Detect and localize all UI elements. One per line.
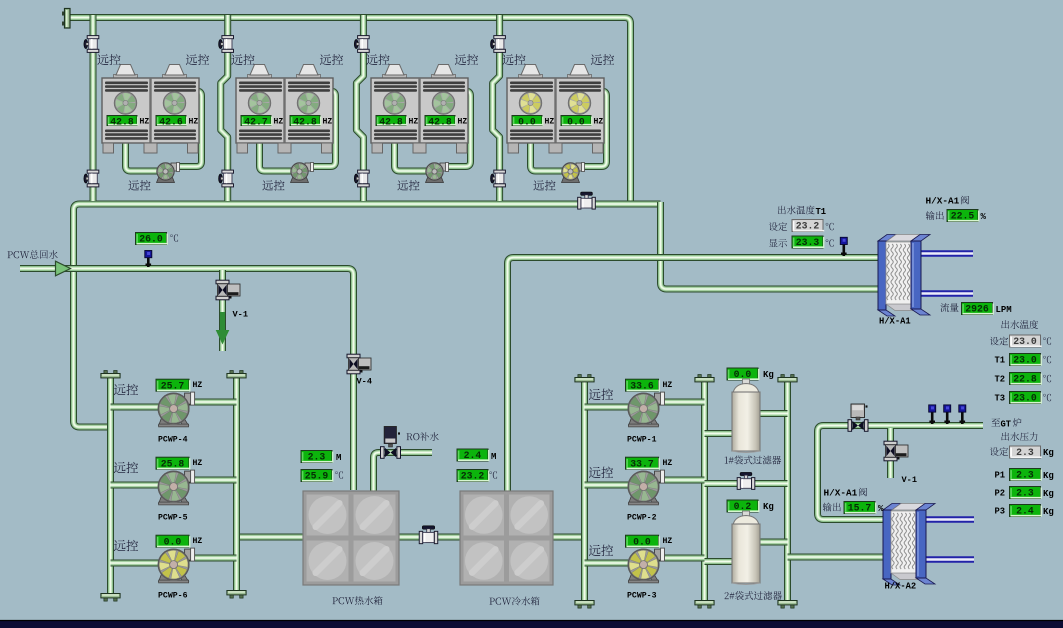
pipe hot-side drop to H/X-A1 lower port	[661, 202, 883, 289]
pipe filter 1 outlet	[752, 410, 788, 417]
label PCWP-6	[158, 592, 188, 601]
svg-text:PCWP-2: PCWP-2	[627, 514, 657, 523]
label outlet pressure	[1001, 432, 1037, 441]
svg-text:23.2: 23.2	[796, 221, 820, 232]
pipe left pump bank discharge column	[233, 374, 240, 593]
svg-text:T2: T2	[995, 375, 1006, 385]
bottom status bar	[0, 620, 1063, 628]
label remote CT-3 pump	[397, 180, 419, 190]
svg-text:PCWP-6: PCWP-6	[158, 592, 188, 601]
pipe PCWP-6 suction	[111, 560, 161, 567]
label H/X-A1 valve	[926, 196, 969, 207]
pipe top header with right drop	[69, 18, 631, 203]
pipe filtered water to H/X-A2	[788, 554, 885, 561]
pipe tower 4 basin to spray pump	[531, 140, 564, 171]
svg-text:Kg: Kg	[1043, 507, 1054, 517]
pipe tower 4 pump discharge to top	[577, 91, 607, 167]
arrow PCW return inflow	[20, 261, 71, 276]
label remote CT-3 fan1	[366, 54, 389, 65]
svg-text:P3: P3	[995, 507, 1006, 517]
sensor return temperature	[145, 251, 152, 268]
display P2	[995, 487, 1054, 499]
pipe tower 2 pump discharge to top	[306, 91, 336, 167]
heat exchanger H/X-A1	[878, 235, 930, 317]
svg-text:V-1: V-1	[902, 475, 917, 485]
svg-text:2.3: 2.3	[1016, 488, 1034, 499]
end cap left bank discharge bottom	[227, 591, 246, 599]
svg-text:23.2: 23.2	[461, 471, 485, 482]
svg-text:PCWP-5: PCWP-5	[158, 514, 188, 523]
svg-text:26.0: 26.0	[139, 234, 163, 245]
display flow 2926 LPM	[940, 303, 1011, 315]
pipe filter bypass	[705, 480, 788, 487]
label PCWP-3	[627, 592, 657, 601]
display cold tank temp 23.2	[457, 470, 497, 482]
top header end cap flange	[62, 9, 70, 29]
svg-text:HZ: HZ	[409, 118, 419, 127]
svg-text:HZ: HZ	[663, 381, 673, 390]
svg-text:2.4: 2.4	[464, 450, 482, 461]
pipe tower 1 basin to spray pump	[126, 140, 159, 171]
valve filter bypass	[737, 472, 755, 489]
label PCW total return	[8, 250, 58, 259]
pipe PCWP-1 discharge	[656, 399, 705, 406]
svg-text:42.6: 42.6	[159, 117, 183, 128]
svg-text:0.0: 0.0	[567, 117, 585, 128]
display PCWP-3 speed	[626, 535, 673, 547]
svg-text:HZ: HZ	[193, 381, 203, 390]
label remote CT-4 pump	[533, 180, 555, 190]
svg-text:33.7: 33.7	[630, 458, 654, 469]
display outlet T2	[995, 373, 1052, 385]
svg-text:25.8: 25.8	[161, 458, 185, 469]
pipe tower 2 riser	[221, 15, 228, 201]
pipe filter 1 inlet	[705, 430, 741, 437]
pump PCWP-4	[158, 392, 194, 427]
pipe cold tank east link	[552, 534, 585, 541]
label remote CT-1 fan2	[186, 54, 209, 65]
label remote CT-2 pump	[262, 180, 284, 190]
svg-text:2926: 2926	[965, 304, 989, 315]
pipe tower 3 riser	[356, 15, 363, 201]
valve main header	[578, 192, 596, 209]
pipe tank to tank link	[398, 534, 461, 541]
pipe GT furnace line with H/X-A1 valve riser	[818, 426, 984, 520]
pipe filter 2 outlet	[752, 539, 788, 546]
svg-text:HZ: HZ	[189, 118, 199, 127]
display filter 2 dp 0.2 Kg	[727, 500, 774, 512]
blue pipe H/X-A1 secondary out top	[918, 250, 973, 257]
filter vessel 2	[732, 511, 760, 585]
cooling tower CT-3	[371, 65, 468, 154]
svg-text:0.0: 0.0	[518, 117, 536, 128]
display outlet T3	[995, 392, 1052, 404]
svg-text:H/X-A1: H/X-A1	[824, 488, 858, 499]
svg-text:HZ: HZ	[663, 459, 673, 468]
sensor GT line 3	[959, 405, 966, 424]
svg-text:PCWP-4: PCWP-4	[158, 436, 188, 445]
svg-text:42.8: 42.8	[110, 117, 134, 128]
svg-text:%: %	[878, 504, 884, 514]
svg-text:33.6: 33.6	[630, 380, 654, 391]
valve RO makeup	[381, 427, 401, 459]
display P1	[995, 469, 1054, 481]
svg-text:P2: P2	[995, 489, 1006, 499]
label PCWP-2	[627, 514, 657, 523]
filter vessel 1	[732, 379, 760, 453]
pipe V-1 drain stub	[219, 270, 226, 351]
pipe PCWP-3 discharge	[656, 555, 705, 562]
svg-text:Kg: Kg	[1043, 448, 1054, 458]
label H/X-A1 valve lower	[824, 488, 867, 499]
label remote CT-1 pump	[128, 180, 150, 190]
pump PCWP-1	[628, 392, 664, 427]
pipe V-1 stub at GT line	[887, 428, 894, 478]
pipe PCWP-3 suction	[585, 560, 631, 567]
svg-text:Kg: Kg	[763, 370, 774, 380]
valve tower 2 supply	[219, 36, 234, 53]
pipe filter 2 inlet	[705, 558, 741, 565]
svg-text:HZ: HZ	[545, 118, 555, 127]
pipe RO makeup water stub	[374, 453, 433, 493]
sensor cold supply temperature	[840, 237, 847, 256]
label to GT furnace	[991, 418, 1021, 430]
label outlet temperature	[1001, 320, 1038, 329]
pipe PCWP-2 discharge	[656, 477, 705, 484]
svg-text:P1: P1	[995, 471, 1006, 481]
label V-1 GT	[902, 475, 917, 485]
label RO makeup water	[407, 432, 439, 441]
display T1 setpoint 23.2	[769, 220, 834, 232]
svg-text:Kg: Kg	[763, 502, 774, 512]
pump PCWP-6	[158, 548, 194, 583]
display PCWP-5 speed	[156, 457, 202, 469]
display PCWP-1 speed	[626, 379, 673, 391]
valve tower 4 supply	[491, 36, 506, 53]
display outlet temp setpoint	[990, 335, 1051, 347]
label remote CT-3 fan2	[455, 54, 478, 65]
label remote PCWP-3	[589, 545, 613, 556]
pipe PCWP-6 discharge	[186, 555, 237, 562]
label remote CT-4 fan1	[502, 54, 525, 65]
svg-text:T3: T3	[995, 394, 1006, 404]
svg-text:42.8: 42.8	[428, 117, 452, 128]
valve tower 1 supply	[84, 36, 99, 53]
svg-text:23.0: 23.0	[1013, 355, 1037, 366]
display PCWP-2 speed	[626, 457, 673, 469]
label remote PCWP-6	[114, 540, 138, 551]
svg-text:HZ: HZ	[663, 537, 673, 546]
pipe PCWP-4 discharge	[186, 399, 237, 406]
label remote CT-2 fan1	[231, 54, 254, 65]
pump PCWP-2	[628, 470, 664, 505]
display cold tank level 2.4 M	[457, 449, 496, 462]
svg-text:2.3: 2.3	[1016, 447, 1034, 458]
label remote PCWP-1	[589, 389, 613, 400]
svg-text:2.4: 2.4	[1016, 506, 1034, 517]
label PCWP-4	[158, 436, 188, 445]
display pressure setpoint	[990, 446, 1054, 458]
svg-text:T1: T1	[995, 356, 1006, 366]
svg-text:22.5: 22.5	[951, 211, 975, 222]
svg-text:PCWP-3: PCWP-3	[627, 592, 657, 601]
valve V-1 GT motor valve	[884, 441, 908, 461]
label remote CT-4 fan2	[591, 54, 614, 65]
end cap right bank top	[778, 375, 797, 382]
svg-text:23.3: 23.3	[796, 237, 820, 248]
svg-text:HZ: HZ	[193, 537, 203, 546]
svg-text:Kg: Kg	[1043, 489, 1054, 499]
svg-text:42.8: 42.8	[293, 117, 317, 128]
svg-text:0.0: 0.0	[633, 536, 651, 547]
svg-text:T1: T1	[816, 207, 827, 217]
pump CT-1 spray	[157, 163, 180, 183]
svg-text:42.8: 42.8	[379, 117, 403, 128]
display PCWP-4 speed	[156, 379, 202, 391]
valve V-4 motor valve	[347, 354, 371, 374]
pipe PCW return line to hot tank (V-4 branch)	[57, 269, 354, 491]
svg-text:23.0: 23.0	[1013, 393, 1037, 404]
svg-text:HZ: HZ	[323, 118, 333, 127]
cooling tower CT-1	[102, 65, 199, 154]
label remote CT-2 fan2	[320, 54, 343, 65]
end cap right bank bottom	[778, 601, 797, 609]
pipe PCWP-5 suction	[111, 482, 161, 489]
pipe tower 1 pump discharge to top	[172, 91, 202, 167]
pump PCWP-5	[158, 470, 194, 505]
tank PCW hot water	[303, 491, 399, 585]
label H/X-A1	[879, 317, 911, 327]
svg-text:HZ: HZ	[140, 118, 150, 127]
pipe cold tank supply riser to H/X-A1 upper port	[508, 258, 883, 493]
label outlet temperature T1	[778, 206, 826, 218]
sensor GT line 2	[944, 405, 951, 424]
display filter 1 dp 0.0 Kg	[727, 368, 774, 380]
label remote PCWP-5	[114, 462, 138, 473]
pipe tower 3 basin to spray pump	[395, 140, 428, 171]
pipe hot tank west link	[237, 534, 305, 541]
pipe tower 2 basin to spray pump	[260, 140, 293, 171]
end cap right bank top	[695, 375, 714, 382]
pump PCWP-3	[628, 548, 664, 583]
cooling tower CT-4	[507, 65, 604, 154]
blue pipe H/X-A2 secondary out bottom	[920, 556, 974, 563]
end cap left bank top	[227, 371, 246, 378]
display H/X-A1 valve output 15.7%	[823, 502, 884, 514]
tank PCW cold water	[460, 491, 553, 585]
valve tower 4 return	[491, 170, 506, 187]
valve tower 2 return	[219, 170, 234, 187]
pipe right pump bank suction column	[581, 378, 588, 601]
label remote CT-1 fan1	[97, 54, 120, 65]
pump CT-4 spray	[562, 163, 585, 183]
pipe PCWP-1 suction	[585, 404, 631, 411]
svg-text:M: M	[336, 453, 341, 463]
label PCW cold water tank	[490, 597, 540, 606]
pipe tower 1 riser	[90, 15, 97, 201]
svg-text:HZ: HZ	[594, 118, 604, 127]
end cap right bank bottom	[575, 601, 594, 609]
svg-text:2.3: 2.3	[1016, 470, 1034, 481]
display H/X-A1 valve output 22.5%	[926, 210, 987, 222]
cooling tower CT-2	[236, 65, 333, 154]
pipe filter outlet column	[784, 379, 791, 601]
svg-text:M: M	[491, 452, 496, 462]
pump CT-3 spray	[426, 163, 449, 183]
svg-text:PCWP-1: PCWP-1	[627, 436, 657, 445]
display hot tank temp 25.9	[301, 470, 343, 482]
svg-text:42.7: 42.7	[244, 117, 268, 128]
pipe PCWP-4 suction	[111, 404, 161, 411]
svg-text:HZ: HZ	[193, 459, 203, 468]
end cap left bank top	[101, 371, 120, 378]
pipe filter inlet column	[701, 379, 708, 601]
label PCWP-1	[627, 436, 657, 445]
pipe PCWP-2 suction	[585, 482, 631, 489]
pump CT-2 spray	[291, 163, 314, 183]
svg-text:H/X-A2: H/X-A2	[885, 582, 917, 592]
valve V-1 drain motor valve	[216, 280, 240, 300]
svg-text:2.3: 2.3	[308, 452, 326, 463]
svg-text:HZ: HZ	[458, 118, 468, 127]
svg-text:15.7: 15.7	[848, 503, 872, 514]
valve tower 3 return	[354, 170, 369, 187]
svg-text:25.9: 25.9	[305, 471, 329, 482]
label V-4	[357, 377, 372, 387]
svg-text:HZ: HZ	[274, 118, 284, 127]
label H/X-A2	[885, 582, 917, 592]
label PCW hot water tank	[333, 596, 383, 605]
valve tower 3 supply	[354, 36, 369, 53]
valve tower 1 return	[84, 170, 99, 187]
svg-text:LPM: LPM	[996, 305, 1012, 315]
end cap right bank top	[575, 375, 594, 382]
blue pipe H/X-A1 secondary out bottom	[918, 290, 973, 297]
pipe tower 3 pump discharge to top	[441, 91, 471, 167]
pipe left pump bank suction column	[107, 374, 114, 596]
label 1# bag filter	[725, 456, 781, 465]
sensor GT line 1	[929, 405, 936, 424]
svg-text:GT: GT	[1001, 420, 1012, 430]
heat exchanger H/X-A2	[883, 504, 935, 586]
pipe tower 4 riser	[493, 15, 500, 201]
label remote PCWP-2	[589, 467, 613, 478]
svg-text:V-1: V-1	[233, 310, 248, 320]
svg-text:V-4: V-4	[357, 377, 372, 387]
label V-1 drain	[233, 310, 248, 320]
svg-text:Kg: Kg	[1043, 471, 1054, 481]
end cap left bank suction bottom	[101, 594, 120, 602]
end cap right bank bottom	[695, 601, 714, 609]
display P3	[995, 505, 1054, 517]
svg-text:22.8: 22.8	[1013, 374, 1037, 385]
svg-text:%: %	[981, 212, 987, 222]
label remote PCWP-4	[114, 384, 138, 395]
pipe main header with left riser to pump bank	[74, 204, 661, 427]
display hot tank level 2.3 M	[301, 451, 341, 463]
svg-text:H/X-A1: H/X-A1	[879, 317, 911, 327]
display PCWP-6 speed	[156, 535, 202, 547]
display T1 actual 23.3	[769, 236, 834, 248]
svg-text:0.0: 0.0	[164, 536, 182, 547]
arrow V-1 drain down	[216, 312, 230, 345]
valve between tanks	[419, 526, 437, 544]
blue pipe H/X-A2 secondary out top	[920, 516, 974, 523]
svg-text:25.7: 25.7	[161, 380, 185, 391]
label PCWP-5	[158, 514, 188, 523]
svg-text:23.0: 23.0	[1013, 336, 1037, 347]
label 2# bag filter	[725, 591, 782, 600]
display return temperature 26.0	[136, 233, 179, 245]
valve GT line motor valve	[848, 404, 868, 431]
svg-text:H/X-A1: H/X-A1	[926, 196, 960, 207]
pipe PCWP-5 discharge	[186, 477, 237, 484]
display outlet T1	[995, 354, 1052, 366]
